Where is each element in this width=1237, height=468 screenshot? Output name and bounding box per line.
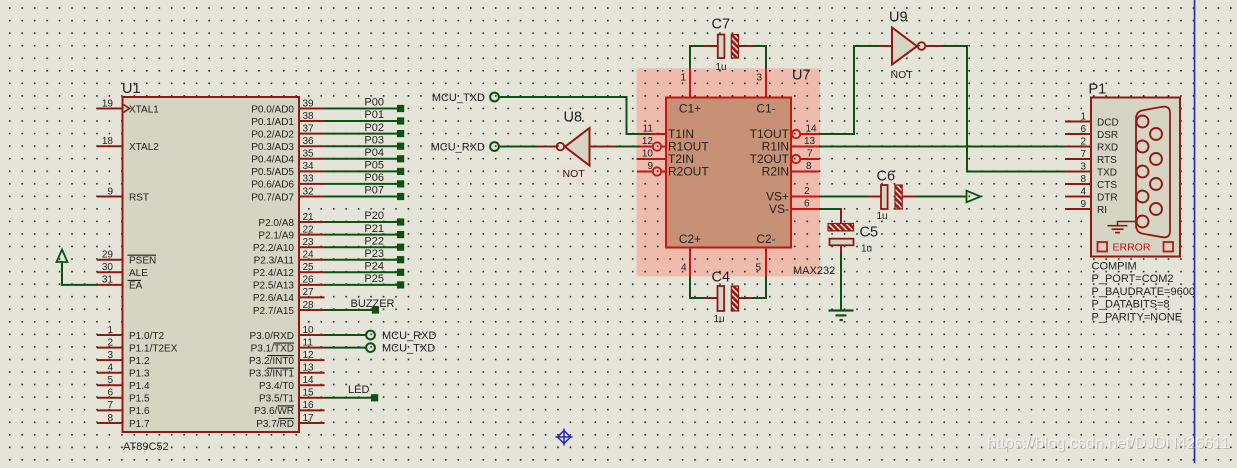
svg-text:AT89C52: AT89C52 [123, 441, 169, 453]
svg-text:23: 23 [303, 237, 315, 248]
inverter U8 reference label [564, 110, 583, 126]
svg-text:P03: P03 [364, 134, 384, 146]
svg-text:2: 2 [1080, 136, 1086, 147]
U1 pin 24 P2.3/A11 wire to net P23 [254, 248, 405, 267]
U7 pin 2 VS+ [766, 186, 819, 204]
svg-text:https://blog.csdn.net/DJDN4266: https://blog.csdn.net/DJDN426611 [987, 435, 1230, 452]
svg-text:P_PORT=COM2: P_PORT=COM2 [1092, 273, 1174, 285]
capacitor C4 plates [718, 286, 739, 311]
svg-text:P07: P07 [364, 185, 384, 197]
svg-text:P0.5/AD5: P0.5/AD5 [251, 167, 294, 178]
svg-text:31: 31 [102, 275, 114, 286]
svg-text:P2.2/A10: P2.2/A10 [253, 243, 295, 254]
U7 pin 10 T2IN [637, 148, 695, 166]
C5 value label 1u [861, 244, 872, 255]
wire C4 left to U7 pin 4 [690, 277, 705, 299]
svg-text:13: 13 [804, 136, 816, 147]
C4 value label 1u [714, 314, 725, 325]
svg-text:P0.6/AD6: P0.6/AD6 [251, 180, 294, 191]
svg-text:C4: C4 [712, 270, 731, 286]
svg-text:22: 22 [303, 224, 315, 235]
DB9 pin circle 9 [1150, 203, 1162, 215]
U1 pin 32 P0.7/AD7 wire to net P07 [251, 185, 404, 204]
svg-text:5: 5 [755, 263, 761, 274]
ERROR indicator [1098, 242, 1174, 254]
svg-text:RI: RI [1097, 205, 1107, 216]
U1 pin 7 P1.6 [97, 400, 150, 417]
svg-text:27: 27 [303, 287, 315, 298]
svg-text:14: 14 [303, 375, 315, 386]
svg-text:DTR: DTR [1097, 192, 1118, 203]
svg-text:P25: P25 [364, 273, 384, 285]
svg-text:MCU_RXD: MCU_RXD [382, 330, 436, 342]
svg-text:P0.1/AD1: P0.1/AD1 [251, 117, 294, 128]
capacitor C7 plates [718, 35, 739, 59]
svg-text:32: 32 [303, 186, 315, 197]
svg-text:P0.2/AD2: P0.2/AD2 [251, 129, 294, 140]
svg-text:14: 14 [806, 124, 818, 135]
svg-text:P1: P1 [1089, 82, 1107, 98]
capacitor C7 reference label [712, 17, 731, 33]
svg-text:P20: P20 [364, 210, 384, 222]
wire MCU_RXD to U8 output [499, 146, 538, 148]
svg-text:36: 36 [303, 136, 315, 147]
U9 output pin stub [925, 45, 942, 47]
U1 pin 11 P3.1/TXD wire to terminal MCU_TXD [251, 337, 436, 354]
svg-text:RTS: RTS [1097, 155, 1117, 166]
svg-text:P0.3/AD3: P0.3/AD3 [251, 142, 294, 153]
U7 pin 3 C1- (top) [756, 69, 766, 98]
svg-text:2: 2 [107, 337, 113, 348]
P1 property P_PORT [1092, 273, 1174, 285]
terminal MCU_TXD [432, 92, 499, 104]
P1 pin 7 RTS [1065, 149, 1117, 166]
svg-text:P2.3/A11: P2.3/A11 [254, 256, 295, 267]
P1 pin 9 RI [1065, 199, 1107, 216]
svg-text:P1.3: P1.3 [129, 369, 150, 380]
U7 pin 11 T1IN [643, 123, 694, 141]
svg-text:28: 28 [303, 300, 315, 311]
svg-text:4: 4 [681, 263, 687, 274]
svg-text:P02: P02 [364, 122, 384, 134]
U1 pin 9 RST [97, 186, 149, 203]
U9 value label NOT [891, 69, 914, 81]
svg-text:37: 37 [303, 123, 315, 134]
svg-text:P24: P24 [364, 261, 384, 273]
U1 pin 30 ALE [97, 262, 148, 279]
DB9 pin circle 2 [1137, 141, 1149, 153]
svg-text:8: 8 [806, 161, 812, 172]
U1 pin 5 P1.4 [97, 375, 150, 392]
svg-text:MCU_TXD: MCU_TXD [382, 343, 435, 355]
origin marker [556, 429, 573, 446]
U7 pin 4 C2+ (bottom) [681, 248, 690, 277]
capacitor C4 reference label [712, 270, 731, 286]
svg-text:12: 12 [642, 136, 654, 147]
U7 pin 12 R1OUT [640, 136, 709, 154]
U1 pin 8 P1.7 [97, 413, 150, 430]
capacitor C6 plates [881, 185, 902, 209]
svg-text:COMPIM: COMPIM [1092, 261, 1137, 273]
svg-text:1u: 1u [714, 314, 725, 325]
P1 pin 1 DCD [1065, 111, 1119, 128]
svg-text:P3.2/INT0: P3.2/INT0 [249, 356, 294, 367]
U7 pin 9 R2OUT [637, 161, 709, 179]
C4 pin stubs [705, 297, 753, 299]
svg-text:P2.6/A14: P2.6/A14 [253, 293, 295, 304]
svg-text:12: 12 [303, 350, 315, 361]
watermark [987, 435, 1231, 453]
svg-text:1u: 1u [716, 62, 727, 73]
U1 pin 13 P3.3/INT1 [249, 363, 325, 380]
MAX232 U7 body [666, 98, 791, 248]
svg-text:P1.2: P1.2 [129, 356, 150, 367]
U8 value label NOT [560, 167, 588, 181]
C6 value label 1u [877, 211, 888, 222]
svg-text:P06: P06 [364, 172, 384, 184]
DB9 pin circle 7 [1150, 153, 1162, 165]
P1 property P_PARITY [1092, 311, 1183, 323]
svg-text:P1.6: P1.6 [129, 406, 150, 417]
P1 property P_BAUDRATE [1092, 286, 1195, 298]
U1 pin 6 P1.5 [97, 388, 150, 405]
svg-text:DCD: DCD [1097, 117, 1119, 128]
wire U7 VS- to C5 [819, 208, 842, 210]
svg-text:9: 9 [1080, 199, 1086, 210]
svg-text:24: 24 [303, 250, 315, 261]
svg-text:P3.4/T0: P3.4/T0 [259, 381, 294, 392]
MCU U1 body [123, 97, 300, 432]
svg-text:EA: EA [129, 281, 143, 292]
U7 value label MAX232 [793, 265, 835, 277]
U1 pin 27 P2.6/A14 [253, 287, 325, 304]
U7 pin 1 C1+ (top) [680, 69, 690, 98]
capacitor C5 plates [828, 224, 854, 246]
wire U7 VS+ to C6 [819, 196, 869, 198]
P1 pin 8 CTS [1065, 174, 1117, 191]
power terminal on EA wire [57, 250, 98, 285]
svg-text:7: 7 [107, 400, 113, 411]
svg-text:35: 35 [303, 149, 315, 160]
svg-text:P2.7/A15: P2.7/A15 [253, 306, 295, 317]
svg-text:MCU_TXD: MCU_TXD [432, 92, 485, 104]
svg-text:34: 34 [303, 161, 315, 172]
svg-text:39: 39 [303, 98, 315, 109]
svg-text:38: 38 [303, 111, 315, 122]
svg-text:P3.6/WR: P3.6/WR [254, 406, 294, 417]
svg-text:P3.5/T1: P3.5/T1 [259, 394, 294, 405]
U1 pin 25 P2.4/A12 wire to net P24 [253, 261, 404, 280]
svg-text:1u: 1u [877, 211, 888, 222]
svg-text:P3.7/RD: P3.7/RD [256, 419, 294, 430]
COM port P1 body [1091, 98, 1180, 257]
U7 pin 6 VS- [769, 198, 819, 216]
wire C7 right to U7 pin 3 [753, 46, 766, 69]
U1 pin 23 P2.2/A10 wire to net P22 [253, 235, 404, 254]
U8 output pin stub [538, 146, 557, 148]
U1 pin 36 P0.3/AD3 wire to net P03 [251, 134, 404, 153]
svg-text:P23: P23 [364, 248, 384, 260]
svg-text:21: 21 [303, 212, 315, 223]
svg-text:MAX232: MAX232 [793, 265, 835, 277]
U1 pin 12 P3.2/INT0 [249, 350, 325, 367]
U7 pin 5 C2- (bottom) [755, 248, 766, 277]
svg-text:2: 2 [804, 186, 810, 197]
U1 pin 4 P1.3 [97, 363, 150, 380]
svg-text:U1: U1 [122, 81, 141, 97]
svg-text:P05: P05 [364, 160, 384, 172]
svg-text:R2OUT: R2OUT [668, 165, 709, 179]
DB9 pin circle 5 [1137, 216, 1149, 228]
svg-text:PSEN: PSEN [129, 256, 156, 267]
terminal MCU_RXD [431, 142, 499, 154]
DB9 pin circle 3 [1137, 166, 1149, 178]
svg-text:18: 18 [102, 136, 114, 147]
svg-text:ERROR: ERROR [1113, 242, 1151, 254]
U1 pin 29 PSEN [97, 250, 156, 267]
svg-text:C2-: C2- [756, 232, 775, 246]
svg-text:P04: P04 [364, 147, 384, 159]
svg-text:8: 8 [107, 413, 113, 424]
svg-text:ALE: ALE [129, 268, 148, 279]
svg-text:P1.5: P1.5 [129, 394, 150, 405]
svg-text:11: 11 [643, 123, 654, 134]
DB9 pin circle 8 [1150, 178, 1162, 190]
svg-text:19: 19 [102, 98, 114, 109]
svg-text:XTAL1: XTAL1 [129, 104, 159, 115]
inverter U9 reference label [889, 10, 908, 26]
svg-text:25: 25 [303, 262, 315, 273]
capacitor C5 reference label [860, 225, 879, 241]
U8 input pin stub [590, 146, 616, 148]
U1 pin 28 P2.7/A15 wire to net BUZZER [253, 298, 395, 317]
svg-text:C5: C5 [860, 225, 879, 241]
wire C6 to output arrow terminal [917, 196, 967, 198]
U7 internal label C2+ [679, 232, 701, 246]
svg-text:P2.4/A12: P2.4/A12 [253, 268, 295, 279]
U7 pin 14 T1OUT [750, 124, 819, 142]
U7 pin 7 T2OUT [750, 149, 819, 167]
U1 pin 1 P1.0/T2 [97, 325, 164, 342]
svg-text:U9: U9 [889, 10, 908, 26]
svg-text:RXD: RXD [1097, 142, 1118, 153]
svg-text:CTS: CTS [1097, 180, 1117, 191]
U9 input pin stub [879, 45, 892, 47]
wire C5 to ground [840, 253, 842, 310]
svg-text:29: 29 [102, 250, 114, 261]
ground symbol [829, 311, 854, 321]
svg-text:P2.1/A9: P2.1/A9 [258, 230, 294, 241]
svg-text:P1.4: P1.4 [129, 381, 150, 392]
svg-text:1: 1 [680, 73, 686, 84]
wire U9 output to COMPIM TXD [942, 46, 1065, 172]
P1 pin 6 DSR [1065, 124, 1118, 141]
svg-text:P_BAUDRATE=9600: P_BAUDRATE=9600 [1092, 286, 1195, 298]
sheet border [1194, 0, 1196, 463]
U1 pin 14 P3.4/T0 [259, 375, 325, 392]
svg-text:U7: U7 [792, 68, 811, 84]
U1 pin 38 P0.1/AD1 wire to net P01 [251, 109, 404, 128]
svg-text:1u: 1u [861, 244, 872, 255]
U1 value label AT89C52 [123, 441, 169, 453]
C5 bottom pin stub [840, 245, 842, 253]
DB9 pin circle 6 [1150, 128, 1162, 140]
U1 pin 16 P3.6/WR [254, 400, 325, 417]
U1 pin 17 P3.7/RD [256, 413, 324, 430]
C6 pin stubs [869, 196, 917, 198]
svg-text:26: 26 [303, 275, 315, 286]
svg-text:DSR: DSR [1097, 130, 1118, 141]
svg-text:1: 1 [1080, 111, 1086, 122]
U7 internal label C1- [756, 102, 775, 116]
svg-text:3: 3 [756, 73, 762, 84]
C5 top pin stub [840, 208, 842, 224]
svg-text:P3.3/INT1: P3.3/INT1 [249, 369, 294, 380]
P1 pin 3 TXD [1065, 161, 1117, 178]
svg-text:VS-: VS- [769, 202, 789, 216]
svg-text:7: 7 [1080, 149, 1086, 160]
svg-text:U8: U8 [564, 110, 583, 126]
svg-text:16: 16 [303, 400, 315, 411]
svg-text:TXD: TXD [1097, 167, 1117, 178]
svg-text:P_DATABITS=8: P_DATABITS=8 [1092, 299, 1170, 311]
wire C4 right to U7 pin 5 [752, 277, 766, 299]
svg-text:LED: LED [348, 384, 369, 396]
svg-text:RST: RST [129, 192, 149, 203]
MCU U1 reference label [122, 81, 141, 97]
svg-text:4: 4 [107, 363, 113, 374]
svg-text:11: 11 [303, 337, 314, 348]
svg-text:P_PARITY=NONE: P_PARITY=NONE [1092, 311, 1183, 323]
svg-text:NOT: NOT [891, 69, 914, 81]
wire U8 input to U7 R1OUT [615, 146, 642, 148]
P1 pin 4 DTR [1065, 186, 1118, 203]
svg-text:13: 13 [303, 363, 315, 374]
svg-text:P0.7/AD7: P0.7/AD7 [251, 192, 294, 203]
C7 pin stubs [703, 45, 753, 47]
arrow terminal at VS+ net [967, 191, 981, 203]
U1 pin 10 P3.0/RXD wire to terminal MCU_RXD [250, 325, 437, 342]
svg-text:BUZZER: BUZZER [351, 298, 395, 310]
svg-text:P00: P00 [364, 97, 384, 109]
U1 pin 33 P0.6/AD6 wire to net P06 [251, 172, 404, 191]
capacitor C6 reference label [877, 169, 896, 185]
svg-text:C7: C7 [712, 17, 731, 33]
U1 pin 26 P2.5/A13 wire to net P25 [253, 273, 404, 292]
U7 internal label C2- [756, 232, 775, 246]
svg-text:P2.5/A13: P2.5/A13 [253, 281, 295, 292]
DB9 connector outline [1136, 107, 1170, 238]
MAX232 U7 reference label [792, 68, 811, 84]
selection highlight around U7 [637, 69, 821, 277]
U7 pin 13 R1IN [762, 136, 819, 154]
svg-text:8: 8 [1080, 174, 1086, 185]
svg-text:C1+: C1+ [679, 102, 701, 116]
svg-text:P0.4/AD4: P0.4/AD4 [251, 155, 294, 166]
P1 property P_DATABITS [1092, 299, 1170, 311]
svg-text:5: 5 [107, 375, 113, 386]
U1 pin 35 P0.4/AD4 wire to net P04 [251, 147, 404, 166]
U7 pin 8 R2IN [762, 161, 819, 179]
svg-text:6: 6 [1080, 124, 1086, 135]
U1 pin 19 XTAL1 [97, 98, 159, 115]
svg-text:P1.7: P1.7 [129, 419, 150, 430]
wire MCU_TXD to U7 T1IN [499, 97, 650, 134]
svg-text:17: 17 [303, 413, 315, 424]
U1 pin 21 P2.0/A8 wire to net P20 [258, 210, 404, 229]
svg-text:C2+: C2+ [679, 232, 701, 246]
svg-text:P1.1/T2EX: P1.1/T2EX [129, 343, 178, 354]
U1 pin 39 P0.0/AD0 wire to net P00 [251, 97, 404, 116]
DB9 pin circle 4 [1137, 191, 1149, 203]
svg-text:MCU_RXD: MCU_RXD [431, 142, 485, 154]
svg-text:P3.1/TXD: P3.1/TXD [251, 343, 294, 354]
svg-text:R2IN: R2IN [762, 165, 789, 179]
inverter U9 body [892, 28, 925, 65]
svg-text:6: 6 [107, 388, 113, 399]
svg-text:1: 1 [107, 325, 113, 336]
svg-text:P3.0/RXD: P3.0/RXD [250, 331, 294, 342]
U1 pin 3 P1.2 [97, 350, 150, 367]
svg-text:30: 30 [102, 262, 114, 273]
svg-text:7: 7 [807, 149, 813, 160]
U7 internal label C1+ [679, 102, 701, 116]
svg-text:C1-: C1- [756, 102, 775, 116]
U1 pin 37 P0.2/AD2 wire to net P02 [251, 122, 404, 141]
U1 pin 34 P0.5/AD5 wire to net P05 [251, 160, 404, 179]
DB9 shell ground [1108, 222, 1137, 233]
svg-text:P21: P21 [364, 223, 384, 235]
wire U7 T1OUT to U9 input [819, 46, 879, 134]
U1 pin 31 EA [97, 275, 143, 292]
svg-text:NOT: NOT [563, 168, 586, 180]
svg-text:P0.0/AD0: P0.0/AD0 [251, 104, 294, 115]
svg-text:P22: P22 [364, 235, 384, 247]
svg-text:C6: C6 [877, 169, 896, 185]
U1 pin 22 P2.1/A9 wire to net P21 [258, 223, 404, 242]
svg-text:9: 9 [647, 161, 653, 172]
inverter U8 body [557, 128, 590, 166]
wire U7 R1IN to COMPIM RXD [819, 146, 1065, 148]
U1 pin 2 P1.1/T2EX [97, 337, 178, 354]
svg-text:P01: P01 [364, 109, 384, 121]
wire C7 left to U7 pin 1 [690, 46, 703, 69]
svg-text:15: 15 [303, 388, 315, 399]
svg-text:33: 33 [303, 174, 315, 185]
svg-text:10: 10 [642, 148, 654, 159]
svg-text:3: 3 [107, 350, 113, 361]
DB9 pin circle 1 [1137, 116, 1149, 128]
C7 value label 1u [716, 62, 727, 73]
svg-text:P1.0/T2: P1.0/T2 [129, 331, 164, 342]
U1 pin 18 XTAL2 [97, 136, 159, 153]
svg-text:4: 4 [1080, 186, 1086, 197]
svg-text:3: 3 [1080, 161, 1086, 172]
svg-text:6: 6 [804, 198, 810, 209]
svg-text:XTAL2: XTAL2 [129, 142, 159, 153]
P1 pin 2 RXD [1065, 136, 1118, 153]
svg-text:9: 9 [107, 186, 113, 197]
svg-text:10: 10 [303, 325, 315, 336]
P1 value label COMPIM [1092, 261, 1137, 273]
COM port P1 reference label [1089, 82, 1107, 98]
svg-text:P2.0/A8: P2.0/A8 [258, 218, 294, 229]
U1 pin 15 P3.5/T1 wire to net LED [259, 384, 378, 404]
